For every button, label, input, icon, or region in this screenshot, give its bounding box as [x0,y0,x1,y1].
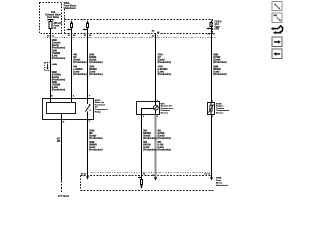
svg-text:(Production): (Production) [89,149,103,152]
svg-text:46: 46 [73,34,76,37]
svg-text:36 X2: 36 X2 [81,174,87,176]
svg-text:(Production): (Production) [89,137,103,140]
svg-text:X1: X1 [68,35,71,37]
svg-text:(J40): (J40) [52,63,57,66]
svg-text:F1: F1 [54,28,57,30]
svg-text:(Production): (Production) [89,73,103,76]
svg-text:56: 56 [89,35,92,37]
svg-text:24: 24 [157,31,160,34]
svg-text:(Production): (Production) [158,149,172,152]
svg-text:(Production): (Production) [143,149,157,152]
svg-text:g: g [89,110,91,112]
svg-text:2: 2 [212,116,214,118]
svg-text:(V8): (V8) [215,29,220,31]
svg-text:BK: BK [57,141,61,143]
svg-text:(Production): (Production) [213,61,227,64]
svg-text:(Production): (Production) [89,61,103,64]
svg-text:3: 3 [157,116,159,118]
svg-text:2: 2 [143,116,145,118]
svg-text:(Production): (Production) [158,137,172,140]
svg-text:(Production): (Production) [52,57,66,60]
svg-text:7: 7 [157,35,159,37]
svg-text:(Production): (Production) [213,73,227,76]
svg-text:Sensor: Sensor [216,113,224,115]
svg-text:A: A [73,95,75,98]
svg-text:X1 12: X1 12 [204,174,210,176]
svg-text:X3: X3 [47,36,50,38]
svg-text:(Production): (Production) [143,137,157,140]
svg-text:F: F [89,96,91,98]
svg-text:12: 12 [213,33,216,35]
svg-text:Cont Relay: Cont Relay [47,16,60,19]
svg-text:C: C [89,120,91,122]
svg-text:(Production): (Production) [52,47,66,50]
svg-text:B8: B8 [152,30,156,32]
svg-text:(Production): (Production) [158,73,172,76]
svg-text:B: B [51,96,53,98]
svg-text:(Production): (Production) [158,61,172,64]
svg-text:Underhood: Underhood [64,7,77,10]
svg-text:(Production): (Production) [73,73,87,76]
svg-text:(Production): (Production) [52,88,66,91]
svg-text:(Production): (Production) [73,61,87,64]
svg-text:Sensor: Sensor [161,113,169,115]
svg-text:Relay: Relay [95,111,102,113]
svg-text:177 Gnd: 177 Gnd [58,194,69,198]
svg-text:B: B [63,122,65,124]
svg-text:Underhood: Underhood [216,185,228,187]
svg-text:X1: X1 [84,35,87,37]
